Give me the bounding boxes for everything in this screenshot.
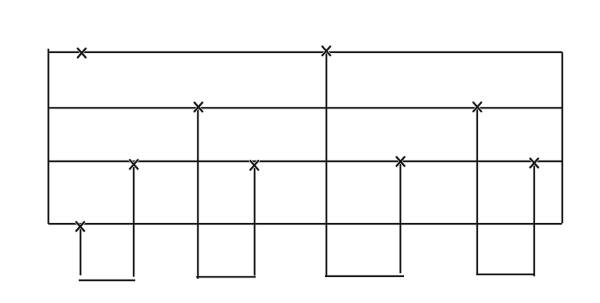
wire bus line 4 (bottom horizontal) (48, 223, 561, 225)
node tap X3 on bus 2 (drop C) (194, 103, 202, 112)
wire drop F (loop 3 right, from bus 3) (399, 162, 401, 274)
node tap X9 on bus 4 (drop A) (76, 222, 84, 231)
node tap X8 on bus 3 (drop H) (530, 159, 538, 168)
wire left rail (47, 49, 49, 224)
node tap X6 on bus 3 (drop D) (250, 161, 258, 170)
node tap X2 on bus 1 (drop E) (322, 46, 330, 55)
soft halo under wires (48, 49, 562, 280)
node tap X1 on bus 1 (78, 49, 86, 58)
wire loop 2 bottom (196, 276, 255, 278)
wire bus line 3 (48, 160, 562, 162)
node tap X5 on bus 3 (drop B) (130, 160, 138, 169)
wire drop H (loop 4 right, from bus 3) (533, 165, 535, 276)
wire right rail (561, 52, 563, 223)
wire drop D (loop 2 right, from bus 3) (254, 168, 256, 276)
wire drop C (loop 2 left, from bus 2) (197, 108, 199, 279)
soft halo under tap marks (76, 46, 538, 231)
wire drop A (loop 1 left, from bus 4) (80, 229, 82, 275)
wire drop G (loop 4 left, from bus 2) (476, 108, 478, 275)
wire bus line 1 (top horizontal) (48, 51, 562, 53)
node tap X4 on bus 2 (drop G) (473, 102, 481, 111)
wire loop 4 bottom (476, 273, 535, 275)
wire drop E (loop 3 left, from bus 1) (325, 52, 327, 277)
wire loop 3 bottom (325, 275, 404, 277)
node tap X7 on bus 3 (drop F) (397, 157, 405, 166)
wire bus line 2 (48, 107, 562, 109)
wire drop B (loop 1 right, from bus 3) (133, 167, 135, 277)
wire loop 1 bottom (79, 279, 135, 281)
